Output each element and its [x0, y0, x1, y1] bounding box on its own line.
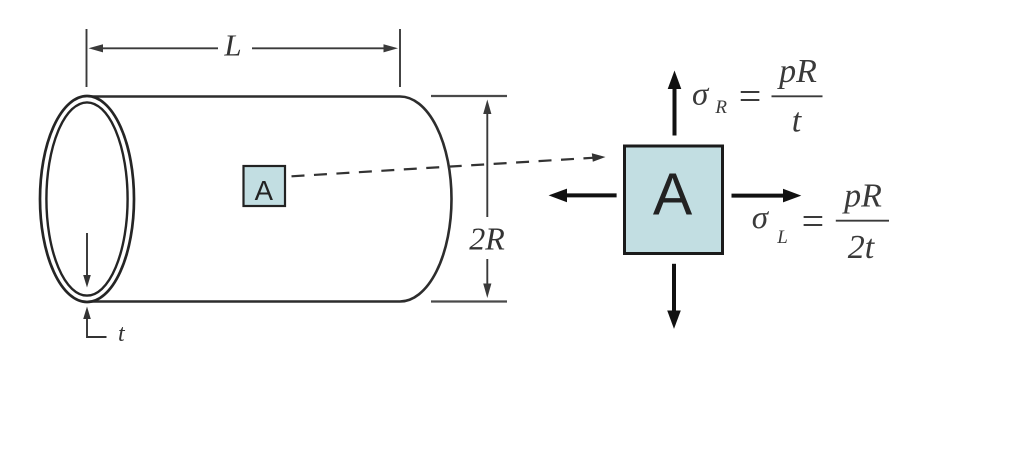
svg-text:t: t — [118, 321, 126, 347]
svg-text:A: A — [653, 162, 693, 228]
svg-text:t: t — [792, 103, 803, 140]
svg-text:A: A — [255, 175, 274, 206]
svg-text:σ: σ — [692, 77, 710, 113]
svg-text:L: L — [223, 28, 241, 63]
svg-text:=: = — [802, 199, 825, 244]
svg-text:pR: pR — [842, 178, 882, 215]
svg-text:R: R — [714, 97, 727, 118]
svg-text:=: = — [739, 74, 762, 119]
svg-text:2t: 2t — [848, 229, 876, 266]
svg-text:pR: pR — [777, 53, 817, 90]
svg-text:2R: 2R — [469, 221, 505, 257]
svg-text:L: L — [776, 227, 788, 248]
svg-text:σ: σ — [752, 200, 770, 236]
